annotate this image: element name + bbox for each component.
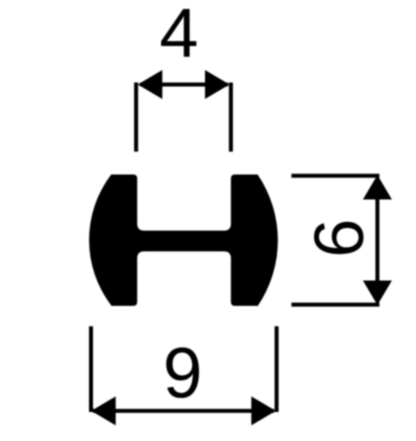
svg-text:4: 4 bbox=[160, 0, 199, 72]
svg-text:9: 9 bbox=[163, 335, 203, 414]
svg-text:6: 6 bbox=[300, 219, 378, 258]
